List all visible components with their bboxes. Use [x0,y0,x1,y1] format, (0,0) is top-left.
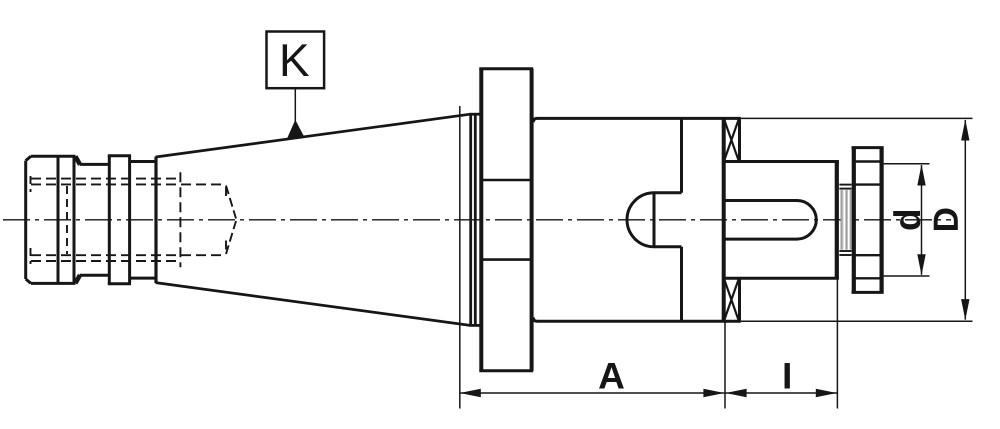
flange [479,69,533,371]
dimension I line [725,392,837,394]
seal ring right verticals [738,118,741,321]
dimension I label [785,363,790,388]
extension lines for D [741,117,973,119]
cylindrical body [533,118,741,321]
short cylinder before taper [131,162,155,279]
taper shank start edge [154,157,157,283]
hidden thread lines (dashed) [31,179,226,261]
extension lines for d [884,163,930,165]
nut internal lines [855,162,880,279]
taper gauge verticals [470,114,482,325]
dimension d arrows [917,165,925,186]
body drive slot [627,118,682,321]
K arrowhead [287,120,304,139]
chamfer between cap and neck [75,156,80,164]
extension line at spigot end [836,279,838,409]
seal ring cross diagonals [724,120,738,321]
hidden thread end vertical [179,172,181,267]
K label [283,44,309,76]
neck section [80,164,110,275]
dimension d label [893,211,920,230]
spigot pilot cylinder [723,162,839,279]
dimension A arrows [460,389,481,397]
seal ring section left face [722,118,726,321]
hidden groove vertical [66,186,68,254]
hidden bore cone end [226,186,236,255]
flange internal lines [483,180,530,260]
K leader line [294,88,296,124]
exposed thread section [841,190,852,250]
centerline axis [3,219,951,221]
extension line shared A/I [724,321,726,408]
dimension D arrows [961,120,969,141]
collar ring [108,156,131,284]
dimension A label [599,363,624,388]
hidden chamfer marks [30,176,32,264]
K flag box [267,32,325,89]
clamping nut [852,148,884,293]
dimension d line [921,165,923,275]
dimension I arrows [726,389,747,397]
extension line at taper gauge [459,106,461,409]
dimension A line [460,392,725,394]
taper shank cone [156,114,471,325]
spigot end face [835,162,839,279]
left threaded end cap outline [26,156,76,283]
spigot slot [725,201,817,240]
dimension D line [964,120,966,320]
dimension D label [934,209,958,230]
